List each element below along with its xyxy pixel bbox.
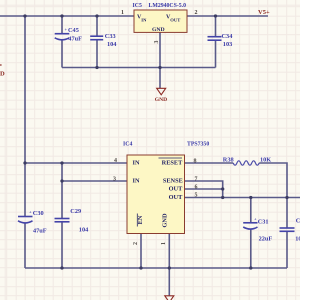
svg-text:47uF: 47uF [33, 227, 47, 234]
svg-text:4: 4 [114, 158, 117, 164]
wire IC4 pin 2 EN to rail [140, 234, 142, 269]
wire top input rail to IC5 pin 1 [0, 15, 134, 17]
capacitor C30 symbol [18, 217, 33, 223]
node bottom rail / GND pin 1 [168, 266, 171, 269]
wire long left vertical from top rail down [24, 16, 26, 217]
svg-text:7: 7 [195, 176, 198, 182]
wire C45 lower leg [61, 40, 63, 67]
svg-text:3: 3 [113, 176, 116, 182]
wire C32 lower leg [286, 231, 288, 268]
svg-text:C30: C30 [33, 210, 44, 217]
svg-text:OUT: OUT [169, 185, 183, 192]
svg-text:10K: 10K [260, 156, 271, 163]
node bottom rail / C31 [249, 266, 252, 269]
node bottom rail / C29 [60, 266, 63, 269]
svg-text:GND: GND [152, 27, 165, 33]
svg-text:OUT: OUT [170, 17, 180, 22]
svg-text:3: 3 [154, 41, 160, 44]
net label fragment D at left edge [0, 65, 5, 78]
wire bottom ground rail [25, 267, 287, 269]
wire IC5 pin 2 output to V5+ [187, 15, 268, 17]
wire IC4 pin 7 sense loop [185, 181, 223, 198]
wire C45 upper leg [61, 16, 63, 34]
svg-text:5: 5 [195, 192, 198, 198]
svg-text:IN: IN [141, 17, 147, 22]
wire C33 lower leg [96, 40, 98, 68]
IC5 pin name VIN [137, 15, 147, 23]
wire C34 lower leg [215, 40, 217, 67]
wire IC4 pin 1 GND to ground symbol [168, 234, 170, 296]
svg-text:RESET: RESET [162, 159, 183, 166]
capacitor C30 labels [29, 209, 47, 234]
svg-text:10: 10 [295, 236, 300, 243]
svg-text:IN: IN [133, 177, 140, 184]
wire IC4 pin 8 to R38 [185, 162, 234, 164]
capacitor C29 symbol [55, 219, 70, 222]
capacitor C34 symbol [208, 37, 222, 41]
regulator IC4 body [127, 155, 185, 234]
wire IC5 pin 3 to ground symbol [159, 32, 161, 88]
IC4 pin name EN with overline (rotated) [137, 214, 144, 227]
svg-text:R38: R38 [223, 156, 234, 163]
svg-text:104: 104 [79, 226, 89, 233]
node top rail / C45 [60, 14, 63, 17]
svg-text:C29: C29 [70, 208, 81, 215]
node bottom rail / EN pin 2 [139, 266, 142, 269]
node pin6 / sense vertical [221, 187, 224, 190]
wire IC4 pin 3 input [62, 180, 127, 182]
svg-text:1: 1 [121, 10, 124, 16]
node pin4 wire / mid vertical [60, 161, 63, 164]
capacitor C31 labels [254, 217, 272, 243]
svg-text:IN: IN [133, 159, 140, 166]
wire IC4 pin 4 input [25, 162, 127, 164]
svg-text:103: 103 [223, 41, 232, 48]
svg-text:LM2940CS-5.0: LM2940CS-5.0 [149, 3, 187, 9]
wire R38 right to vertical drop [259, 163, 287, 198]
svg-text:2: 2 [133, 242, 139, 245]
wire C31 lower leg [250, 230, 252, 269]
ground symbol under IC5 [155, 88, 167, 103]
node cap rail / IC5 pin 3 [158, 66, 161, 69]
op-amp regulator IC5 body [134, 10, 187, 32]
IC5 pin name VOUT [166, 15, 180, 23]
IC4 pin name RESET with overline [159, 158, 184, 166]
wire C33 upper leg [96, 16, 98, 36]
svg-text:C31: C31 [258, 218, 269, 225]
svg-text:1: 1 [161, 242, 167, 245]
svg-text:6: 6 [195, 184, 198, 190]
node pin4 wire / left vertical [23, 161, 26, 164]
node pin3 wire / mid vertical [60, 179, 63, 182]
ground symbol under IC4 pin 1 (clipped at bottom) [165, 296, 174, 300]
wire C30 lower leg to bottom rail [24, 223, 26, 268]
svg-text:D: D [0, 71, 5, 78]
capacitor C33 symbol [90, 36, 103, 40]
node out rail / C32 R38 [285, 196, 288, 199]
wire middle vertical C29 upper [61, 163, 63, 219]
wire capacitor ground rail under IC5 [62, 67, 216, 69]
node top rail / C33 [95, 14, 98, 17]
wire C31 upper leg [250, 198, 252, 223]
svg-text:SENSE: SENSE [163, 177, 183, 184]
wire C32 upper leg [286, 198, 288, 229]
svg-text:8: 8 [194, 158, 197, 164]
capacitor C34 labels [222, 33, 234, 48]
svg-text:+: + [254, 217, 257, 222]
svg-text:GND: GND [162, 213, 169, 227]
capacitor C29 labels [70, 208, 89, 233]
svg-text:C3: C3 [296, 217, 300, 224]
svg-text:IC4: IC4 [123, 142, 132, 148]
svg-text:TPS7350: TPS7350 [187, 142, 209, 148]
svg-text:EN: EN [137, 215, 144, 224]
wire C34 upper leg [215, 16, 217, 37]
svg-text:V5+: V5+ [258, 9, 270, 16]
capacitor C45 symbol [55, 34, 70, 40]
capacitor C33 labels [105, 33, 117, 48]
wire output rail from IC4 pin 5 [185, 197, 301, 199]
svg-text:104: 104 [107, 41, 117, 48]
node cap rail / C33 [95, 66, 98, 69]
wire IC4 pin 6 out [185, 188, 223, 190]
node top rail / left vertical [23, 14, 26, 17]
capacitor C32 labels (clipped) [295, 217, 303, 242]
resistor R38 [233, 161, 259, 165]
svg-text:C34: C34 [222, 33, 234, 40]
svg-text:22uF: 22uF [259, 236, 273, 243]
svg-text:+: + [29, 209, 32, 214]
capacitor C45 labels [65, 27, 83, 42]
capacitor C32 symbol (clipped at right edge) [280, 228, 295, 231]
capacitor C31 symbol [243, 223, 257, 229]
svg-text:2: 2 [195, 10, 198, 16]
svg-text:47uF: 47uF [68, 35, 82, 42]
node out rail / C31 [249, 196, 252, 199]
svg-text:GND: GND [155, 97, 167, 103]
svg-text:OUT: OUT [169, 194, 183, 201]
svg-text:IC5: IC5 [133, 3, 142, 9]
node out rail / sense vertical [221, 196, 224, 199]
wire C29 lower leg [61, 222, 63, 268]
svg-text:C45: C45 [68, 27, 79, 34]
node out rail / C34 [214, 14, 217, 17]
svg-text:C33: C33 [105, 33, 116, 40]
